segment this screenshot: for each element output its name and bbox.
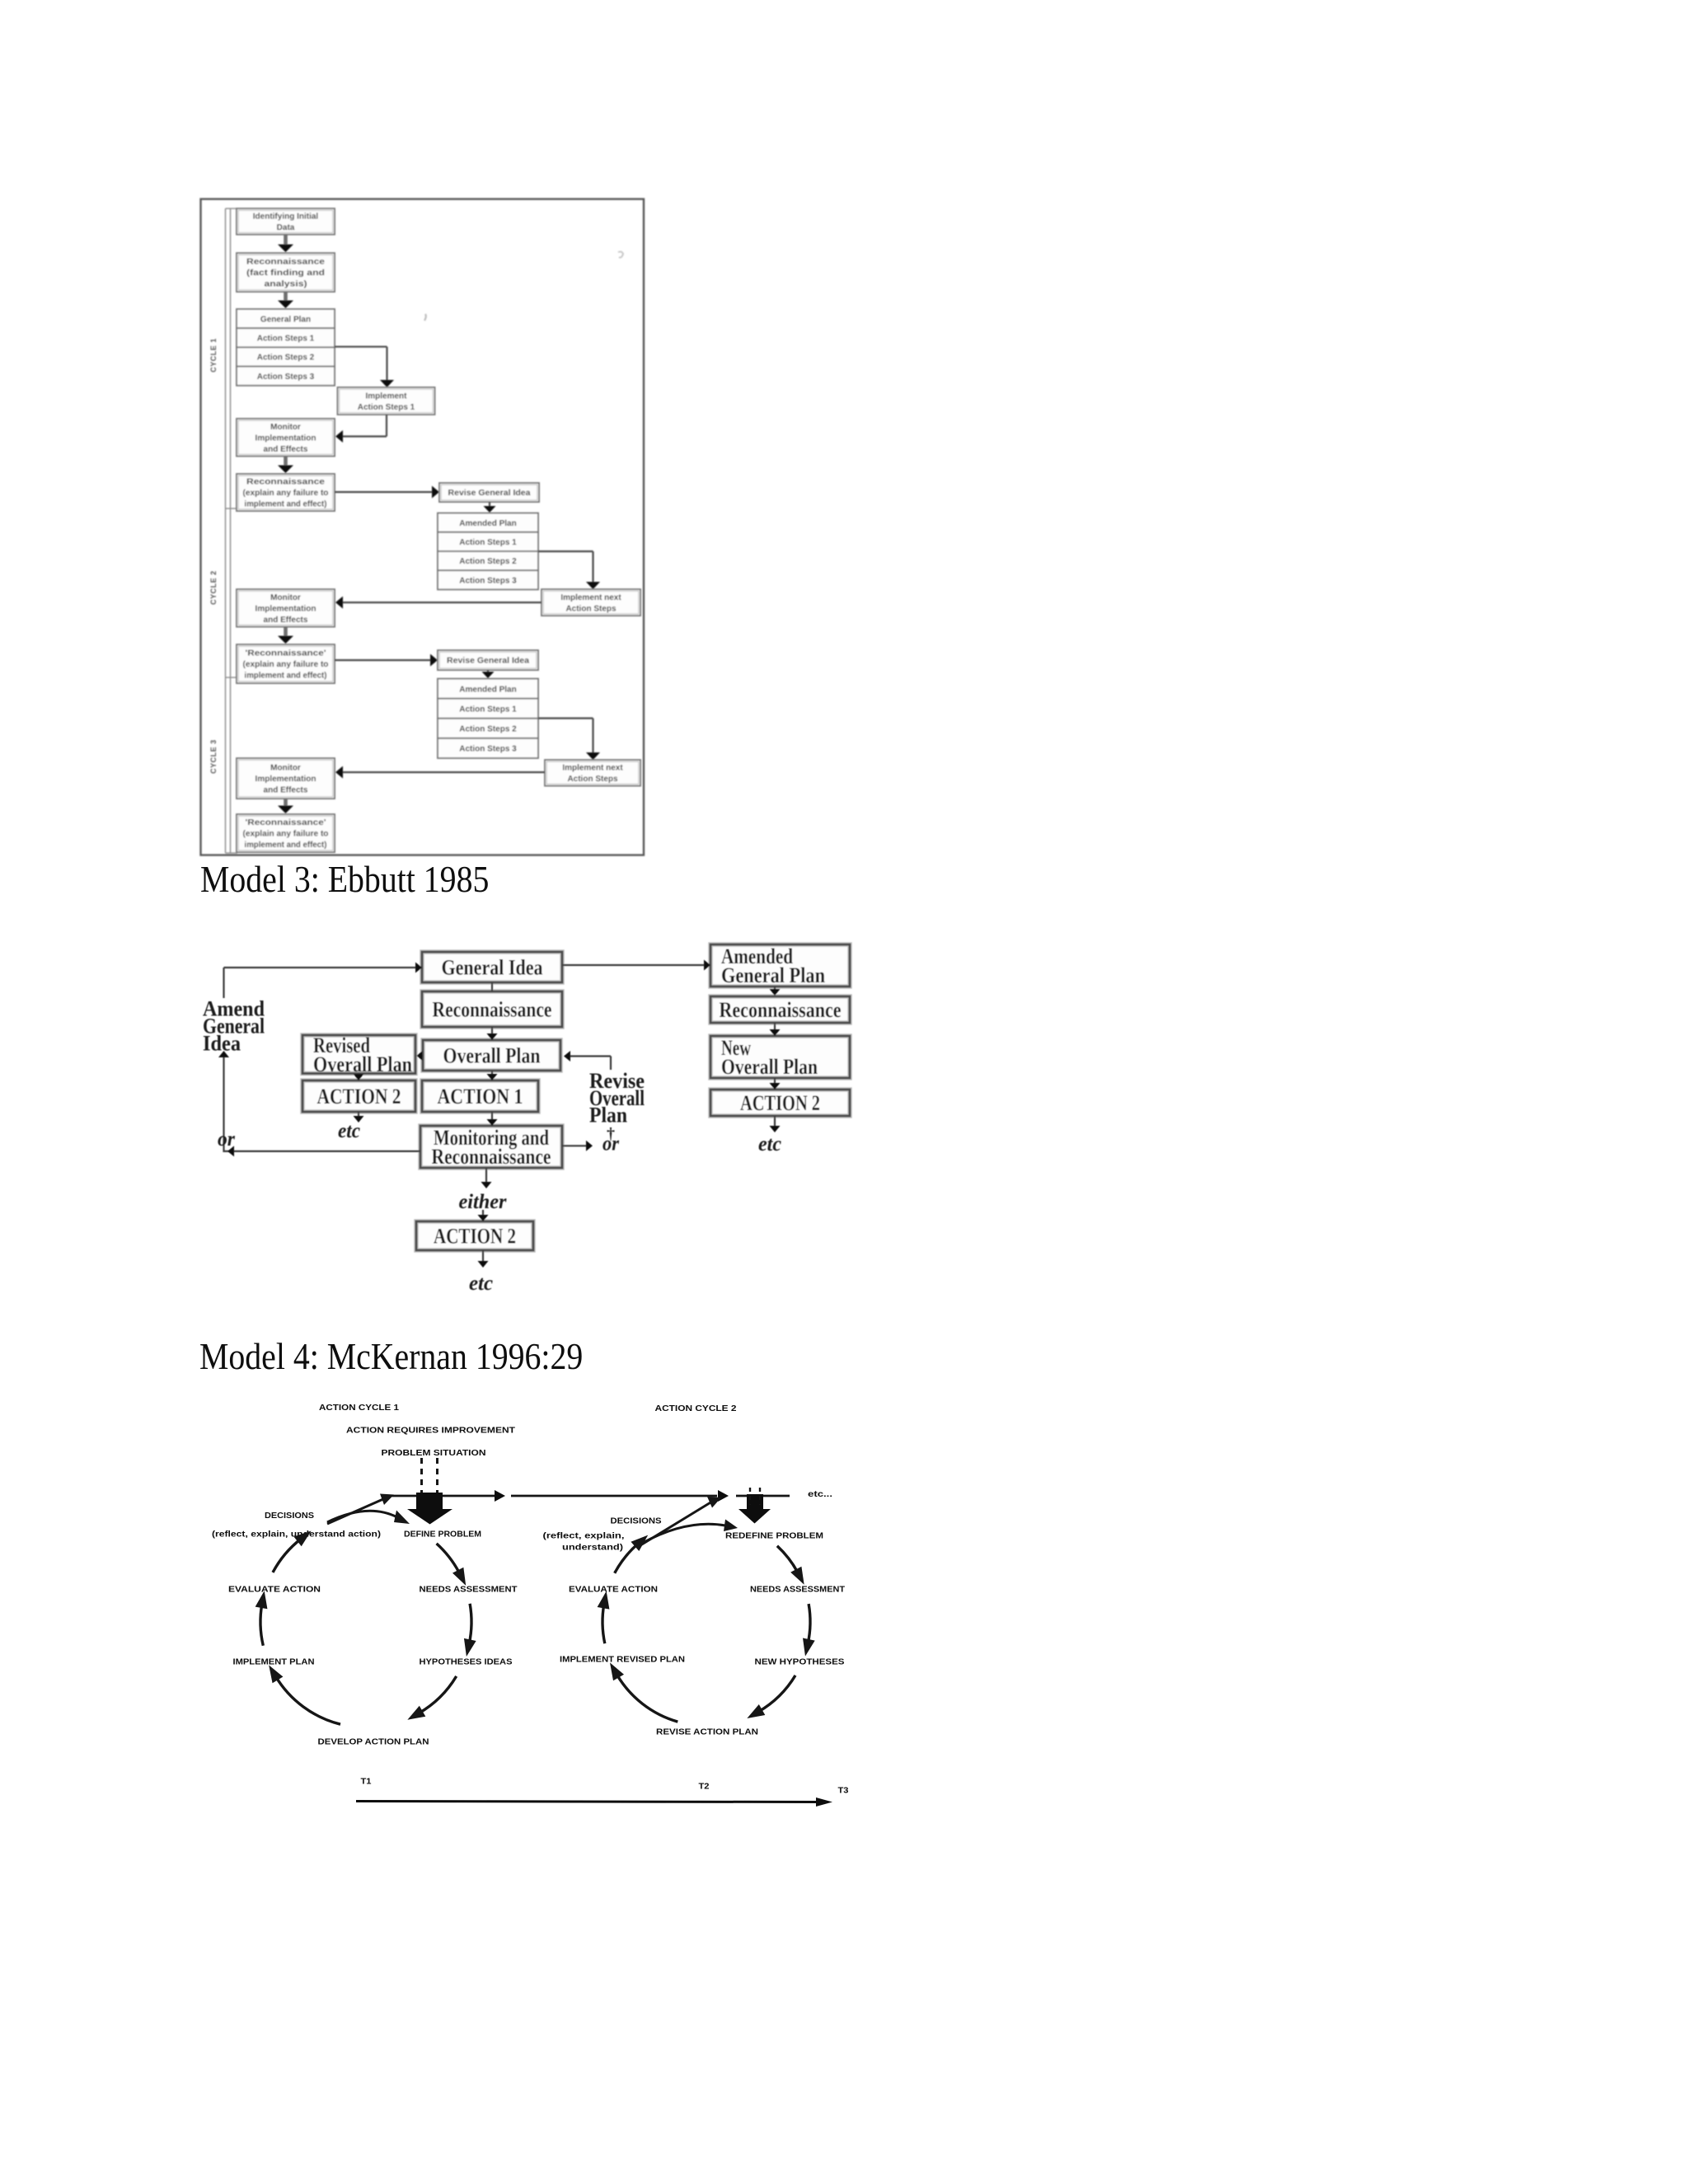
svg-text:etc: etc [469, 1272, 493, 1295]
svg-text:analysis): analysis) [265, 280, 307, 289]
svg-text:Reconnaissance: Reconnaissance [246, 258, 326, 267]
svg-text:and Effects: and Effects [264, 786, 308, 795]
svg-text:Action Steps 1: Action Steps 1 [459, 538, 517, 547]
svg-text:Monitor: Monitor [270, 764, 301, 773]
svg-text:Implementation: Implementation [256, 775, 316, 784]
svg-text:(explain any failure to: (explain any failure to [243, 489, 329, 498]
svg-text:T3: T3 [838, 1786, 849, 1796]
svg-text:DECISIONS: DECISIONS [611, 1516, 662, 1526]
svg-text:Action Steps: Action Steps [565, 604, 617, 613]
svg-text:(explain any failure to: (explain any failure to [243, 660, 329, 669]
svg-text:(fact finding and: (fact finding and [246, 269, 325, 278]
svg-text:ACTION 2: ACTION 2 [740, 1091, 820, 1115]
svg-text:or: or [603, 1133, 619, 1155]
svg-text:Implement next: Implement next [562, 764, 623, 773]
svg-text:NEEDS ASSESSMENT: NEEDS ASSESSMENT [750, 1585, 846, 1595]
svg-text:General Plan: General Plan [260, 315, 311, 324]
svg-text:Implementation: Implementation [256, 434, 316, 443]
svg-text:Action Steps 2: Action Steps 2 [257, 354, 315, 363]
svg-text:Action Steps 2: Action Steps 2 [459, 724, 517, 733]
svg-text:PROBLEM SITUATION: PROBLEM SITUATION [382, 1448, 486, 1458]
svg-text:Monitor: Monitor [270, 593, 301, 602]
svg-text:CYCLE 2: CYCLE 2 [209, 570, 218, 605]
svg-text:Revise General Idea: Revise General Idea [447, 657, 529, 666]
svg-text:implement and effect): implement and effect) [245, 672, 327, 681]
svg-text:Amended Plan: Amended Plan [459, 685, 516, 694]
svg-text:and Effects: and Effects [264, 616, 308, 625]
svg-text:Implement: Implement [365, 391, 407, 401]
svg-text:Identifying Initial: Identifying Initial [253, 213, 319, 222]
svg-text:Revise General Idea: Revise General Idea [448, 489, 531, 498]
svg-text:T2: T2 [699, 1782, 710, 1792]
svg-text:NEEDS ASSESSMENT: NEEDS ASSESSMENT [420, 1585, 518, 1595]
svg-text:Reconnaissance: Reconnaissance [246, 478, 326, 487]
svg-text:Action Steps 1: Action Steps 1 [257, 335, 315, 344]
svg-text:(reflect, explain,: (reflect, explain, [543, 1531, 625, 1541]
svg-text:T1: T1 [361, 1777, 372, 1787]
svg-text:ACTION 2: ACTION 2 [434, 1225, 516, 1249]
svg-text:ACTION CYCLE 2: ACTION CYCLE 2 [655, 1404, 737, 1413]
svg-text:Reconnaissance: Reconnaissance [433, 998, 552, 1022]
svg-text:Overall Plan: Overall Plan [443, 1044, 541, 1068]
svg-text:'Reconnaissance': 'Reconnaissance' [246, 818, 326, 827]
svg-text:ACTION 1: ACTION 1 [438, 1085, 523, 1108]
svg-text:General Idea: General Idea [442, 956, 543, 980]
svg-text:implement and effect): implement and effect) [245, 841, 327, 850]
svg-text:or: or [218, 1128, 235, 1151]
svg-text:Overall Plan: Overall Plan [313, 1052, 412, 1076]
svg-text:Reconnaissance: Reconnaissance [720, 998, 842, 1022]
svg-text:etc: etc [338, 1120, 360, 1142]
svg-text:NEW HYPOTHESES: NEW HYPOTHESES [755, 1657, 845, 1667]
svg-text:(explain any failure to: (explain any failure to [243, 830, 329, 839]
svg-text:Action Steps 3: Action Steps 3 [257, 373, 315, 382]
svg-text:Action Steps 1: Action Steps 1 [358, 403, 415, 412]
svg-text:EVALUATE ACTION: EVALUATE ACTION [569, 1585, 658, 1595]
svg-text:etc...: etc... [808, 1489, 832, 1499]
svg-text:Action Steps 3: Action Steps 3 [459, 745, 517, 754]
svg-text:Reconnaissance: Reconnaissance [432, 1145, 551, 1169]
svg-text:DEVELOP ACTION PLAN: DEVELOP ACTION PLAN [318, 1737, 429, 1747]
svg-text:ACTION 2: ACTION 2 [317, 1085, 401, 1108]
svg-text:REDEFINE PROBLEM: REDEFINE PROBLEM [725, 1531, 823, 1541]
svg-text:General Plan: General Plan [721, 963, 825, 987]
svg-text:IMPLEMENT REVISED PLAN: IMPLEMENT REVISED PLAN [560, 1655, 685, 1665]
svg-text:understand): understand) [562, 1543, 623, 1553]
svg-text:Action Steps 3: Action Steps 3 [459, 576, 517, 585]
svg-text:REVISE ACTION PLAN: REVISE ACTION PLAN [656, 1727, 758, 1737]
svg-text:and Effects: and Effects [264, 445, 308, 454]
svg-text:Action Steps 1: Action Steps 1 [459, 705, 517, 714]
svg-text:DECISIONS: DECISIONS [265, 1511, 314, 1521]
svg-text:Overall Plan: Overall Plan [721, 1055, 818, 1079]
svg-text:Data: Data [277, 223, 295, 232]
svg-text:Implementation: Implementation [256, 604, 316, 613]
svg-text:Action Steps 2: Action Steps 2 [459, 557, 517, 566]
svg-text:'Reconnaissance': 'Reconnaissance' [246, 649, 326, 658]
svg-text:ACTION REQUIRES IMPROVEMENT: ACTION REQUIRES IMPROVEMENT [346, 1426, 516, 1436]
svg-text:Amended Plan: Amended Plan [459, 519, 516, 528]
svg-text:Idea: Idea [203, 1032, 241, 1056]
svg-text:etc: etc [758, 1133, 781, 1155]
svg-text:ACTION CYCLE 1: ACTION CYCLE 1 [319, 1403, 399, 1413]
svg-text:Action Steps: Action Steps [567, 775, 618, 784]
svg-text:HYPOTHESES IDEAS: HYPOTHESES IDEAS [420, 1657, 513, 1667]
svg-text:implement and effect): implement and effect) [245, 500, 327, 509]
svg-text:Plan: Plan [589, 1104, 627, 1127]
svg-text:Implement next: Implement next [560, 593, 621, 602]
svg-text:either: either [459, 1191, 507, 1213]
svg-text:CYCLE 3: CYCLE 3 [209, 739, 218, 774]
svg-text:Monitor: Monitor [270, 423, 301, 432]
svg-text:CYCLE 1: CYCLE 1 [209, 338, 218, 373]
svg-text:EVALUATE ACTION: EVALUATE ACTION [228, 1585, 321, 1595]
svg-text:DEFINE PROBLEM: DEFINE PROBLEM [404, 1530, 481, 1540]
svg-text:IMPLEMENT PLAN: IMPLEMENT PLAN [233, 1657, 315, 1667]
